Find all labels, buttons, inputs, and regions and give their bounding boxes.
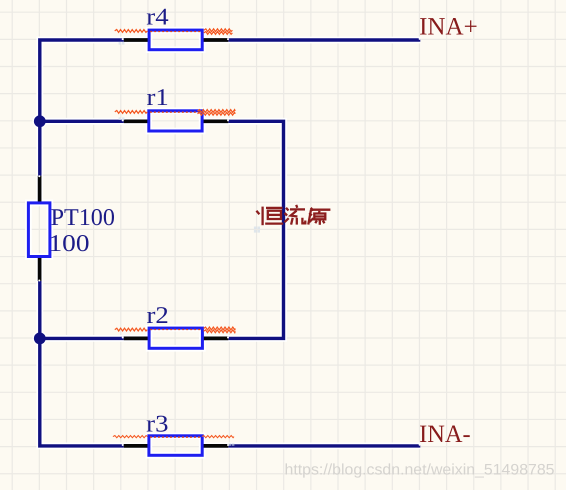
svg-text:INA+: INA+ — [419, 14, 478, 41]
svg-text:r1: r1 — [147, 85, 169, 111]
svg-text:100: 100 — [49, 231, 90, 257]
svg-text:r3: r3 — [146, 411, 168, 437]
svg-text:INA-: INA- — [419, 421, 471, 448]
svg-text:PT100: PT100 — [51, 205, 115, 231]
svg-text:https://blog.csdn.net/weixin_5: https://blog.csdn.net/weixin_51498785 — [285, 461, 555, 478]
svg-text:r4: r4 — [146, 4, 168, 30]
svg-text:r2: r2 — [147, 303, 169, 329]
